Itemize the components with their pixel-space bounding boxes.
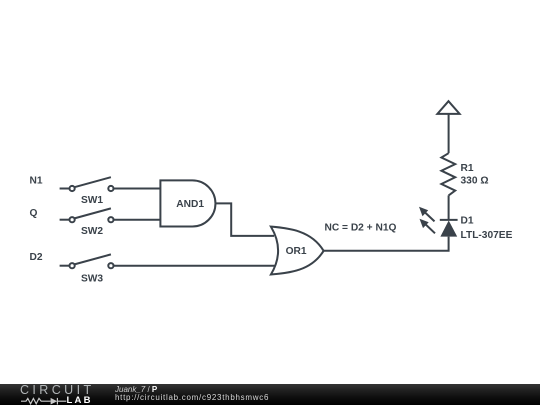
switch SW3 [70,254,114,284]
and-gate AND1 [160,180,215,226]
switch SW1 [70,177,114,206]
svg-text:D1: D1 [461,216,474,227]
wire Q to SW2 [60,219,70,221]
svg-text:Q: Q [30,208,38,219]
net label NC = D2 + N1Q [325,223,397,234]
wire N1 to SW1 [60,188,70,190]
wire AND1 to OR1 [216,203,275,236]
power supply symbol [437,101,459,114]
svg-text:OR1: OR1 [286,246,307,257]
svg-text:LTL-307EE: LTL-307EE [461,230,513,241]
svg-text:SW3: SW3 [81,273,103,284]
wire D2 to SW3 [60,265,70,267]
node Q [30,208,38,219]
wire D1 to R1 [448,195,450,220]
resistor R1 [441,153,488,195]
wire SW3 to OR1 [114,265,276,267]
wire R1 to power [448,114,450,153]
footer bar [0,384,540,405]
svg-text:330 Ω: 330 Ω [461,176,489,187]
svg-text:AND1: AND1 [176,199,204,210]
or-gate OR1 [271,227,324,275]
node D2 [30,252,43,263]
svg-text:SW1: SW1 [81,195,103,206]
LED D1 [419,207,513,241]
wire SW1 to AND1 [114,188,161,190]
svg-text:N1: N1 [30,176,43,187]
svg-text:SW2: SW2 [81,226,103,237]
wire OR1 output to D1 [324,237,449,251]
switch SW2 [70,208,114,237]
svg-text:D2: D2 [30,252,43,263]
CircuitLab logo [20,385,95,404]
svg-text:NC = D2 + N1Q: NC = D2 + N1Q [325,223,397,234]
node N1 [30,176,43,187]
wire SW2 to AND1 [114,219,161,221]
footer url text [115,394,269,402]
svg-text:R1: R1 [461,163,474,174]
footer link text [115,386,157,394]
logo resistor-diode glyph [21,398,66,405]
